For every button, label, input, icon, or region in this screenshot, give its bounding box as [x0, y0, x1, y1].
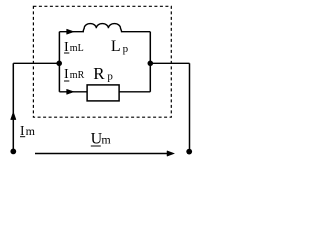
terminal dot bottom-left — [10, 149, 16, 155]
svg-text:R: R — [93, 64, 105, 83]
wire: left node to outer left corner — [13, 62, 59, 64]
wire: outer left vertical — [12, 63, 14, 151]
svg-text:p: p — [123, 43, 129, 55]
arrow Im (current arrow, pointing up) — [11, 112, 16, 120]
inductor Lp coil — [83, 24, 122, 32]
wire: right node to outer right corner — [150, 62, 189, 64]
svg-text:p: p — [107, 71, 113, 83]
arrow ImR (current arrow on bottom branch) — [67, 89, 74, 94]
svg-text:I: I — [64, 67, 69, 82]
svg-text:m: m — [26, 124, 36, 138]
wire: bottom branch left stub — [59, 91, 87, 93]
terminal dot bottom-right — [186, 149, 192, 155]
svg-text:mR: mR — [70, 70, 85, 81]
arrow Um (voltage arrow, pointing right) — [35, 153, 168, 155]
wire: loop left vertical — [58, 32, 60, 92]
svg-text:L: L — [111, 38, 121, 55]
resistor Rp body — [87, 85, 119, 101]
wire: top branch right stub — [121, 31, 150, 33]
wire: bottom branch right stub — [119, 91, 150, 93]
svg-text:m: m — [101, 133, 111, 147]
dashed box (magnetizing branch boundary) — [33, 6, 171, 117]
wire: top branch left stub — [59, 31, 84, 33]
node right (junction dot) — [148, 61, 154, 67]
wire: loop right vertical — [149, 32, 151, 92]
node left (junction dot) — [56, 61, 62, 67]
arrow ImL (current arrow on top branch) — [67, 29, 74, 34]
svg-text:I: I — [20, 123, 25, 138]
svg-text:mL: mL — [70, 43, 84, 54]
wire: outer right vertical — [189, 63, 191, 151]
